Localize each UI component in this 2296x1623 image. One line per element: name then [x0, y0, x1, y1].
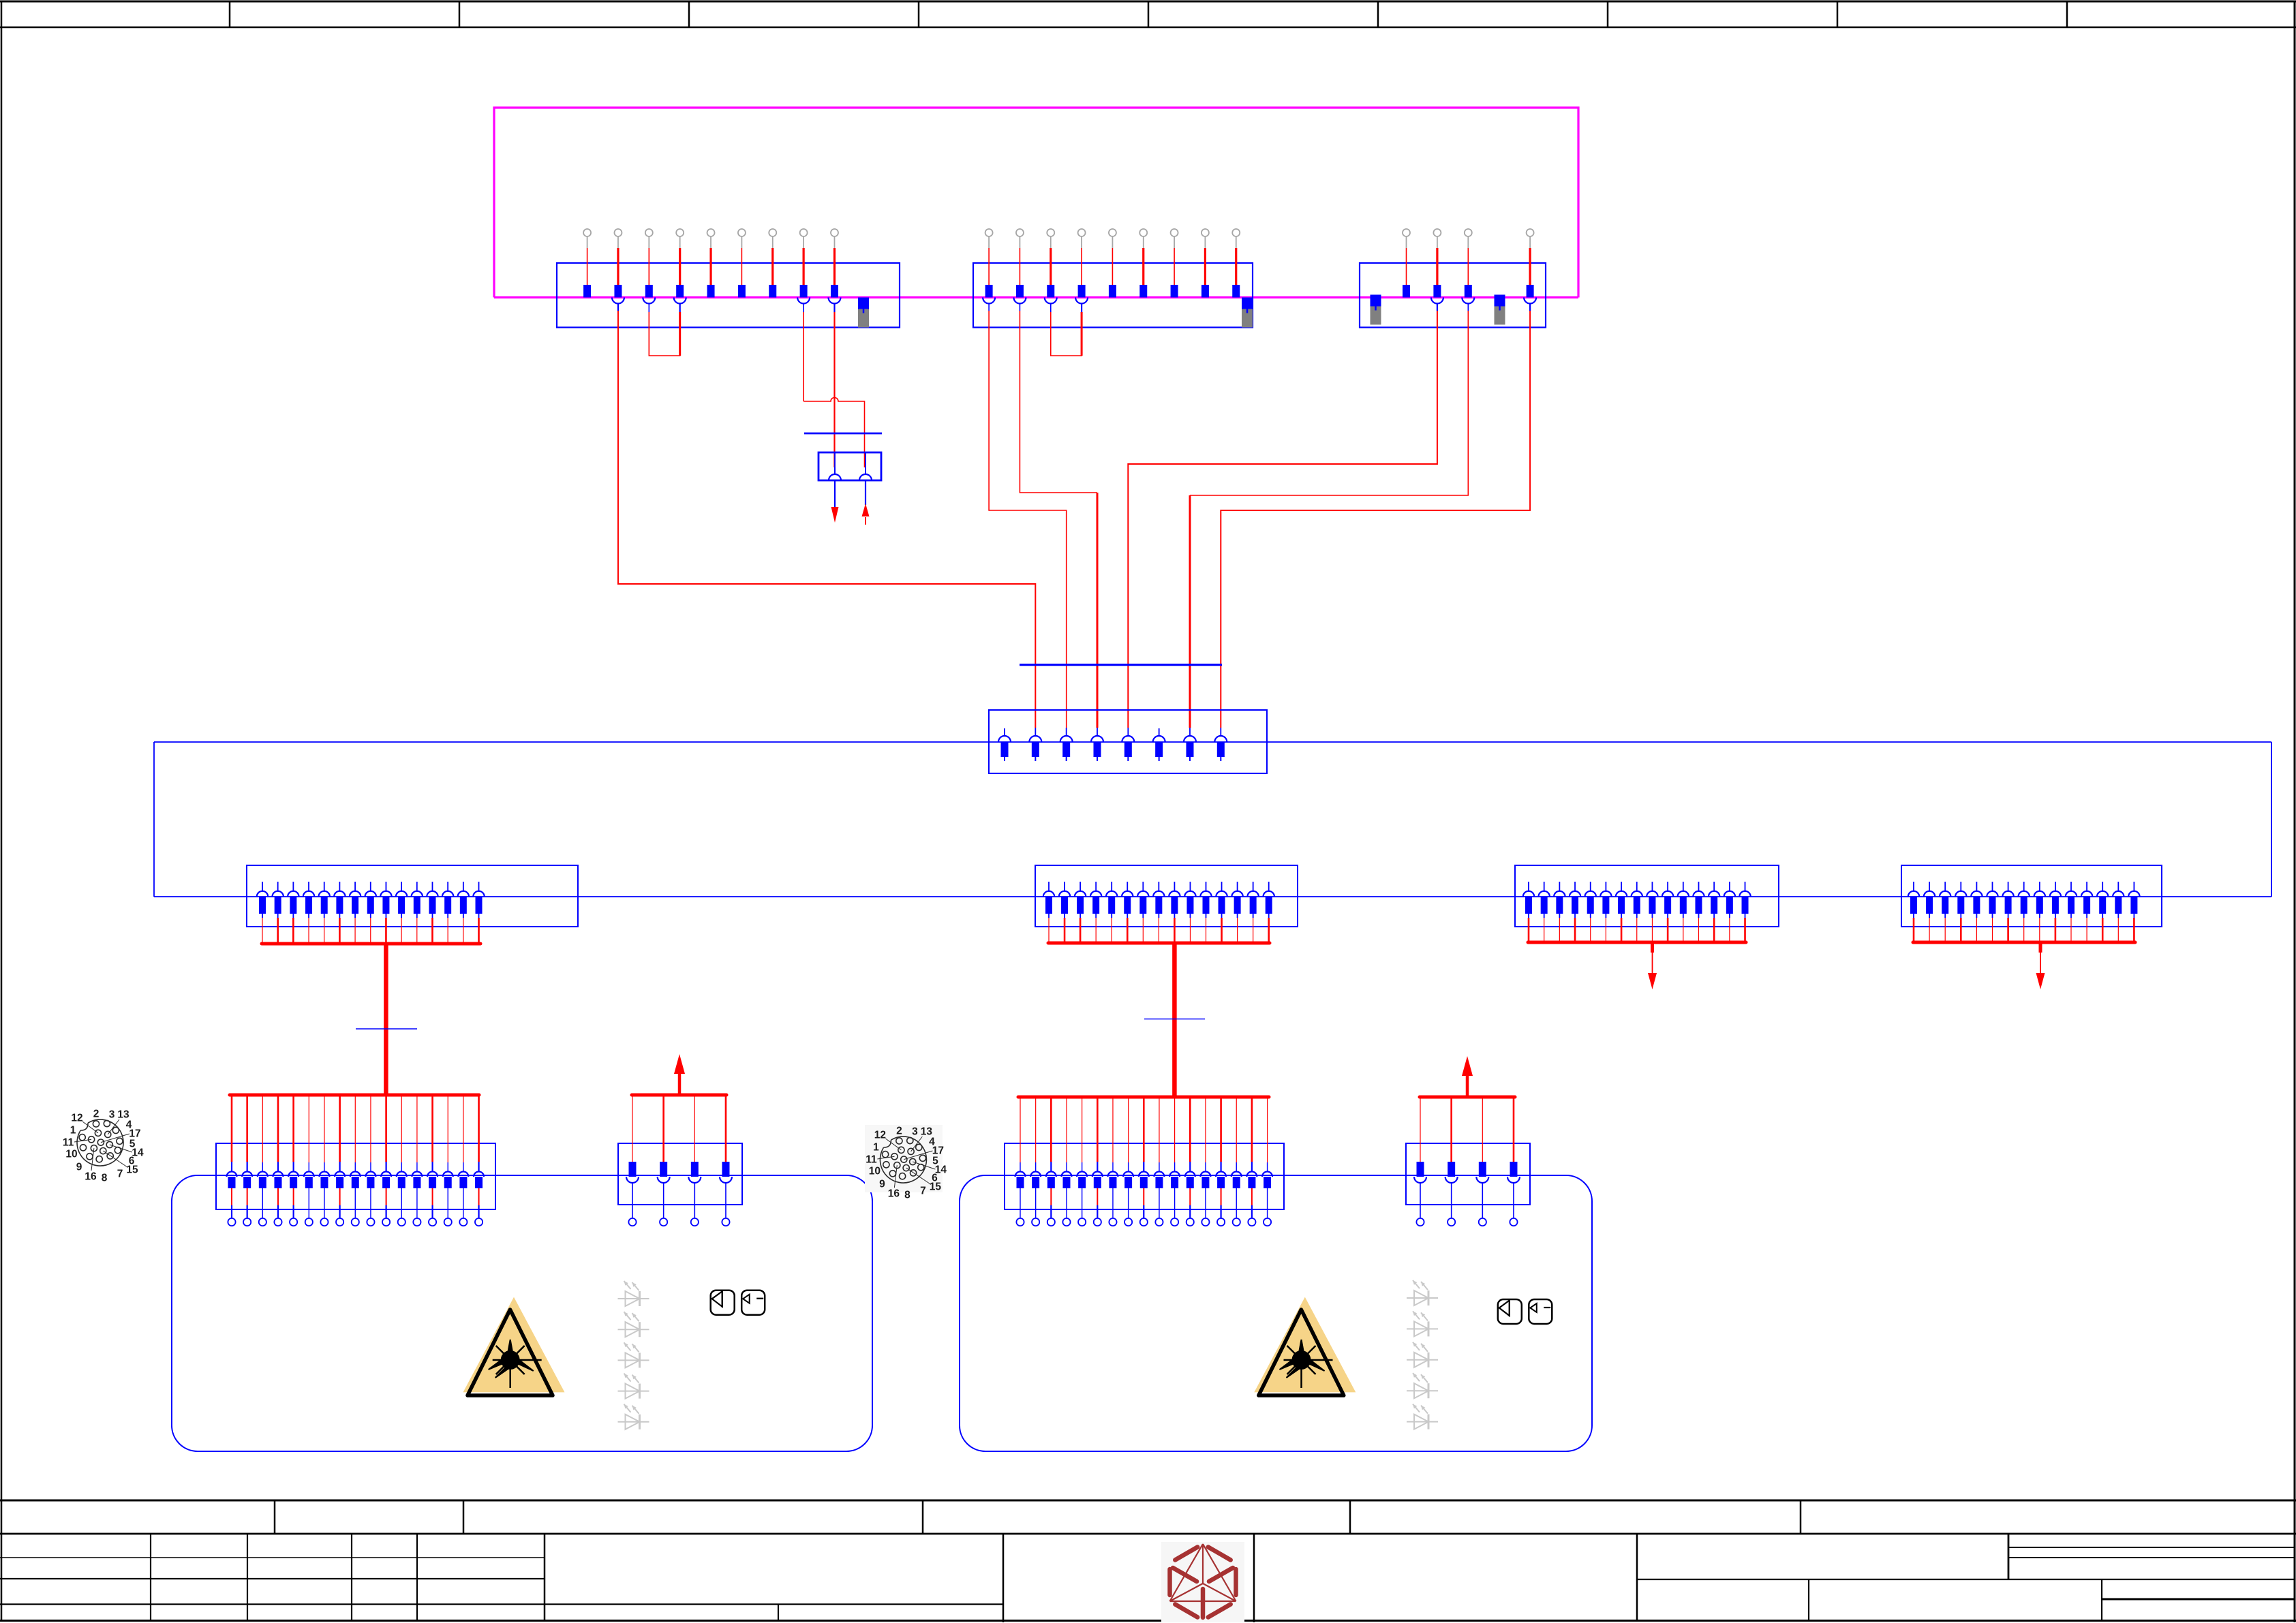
svg-text:2: 2 [896, 1126, 902, 1137]
svg-text:9: 9 [879, 1179, 885, 1190]
svg-text:15: 15 [126, 1164, 138, 1176]
svg-text:9: 9 [76, 1162, 82, 1173]
svg-text:3: 3 [109, 1109, 115, 1121]
svg-text:10: 10 [65, 1149, 77, 1160]
svg-text:7: 7 [920, 1186, 926, 1197]
svg-text:8: 8 [904, 1190, 910, 1201]
svg-text:11: 11 [63, 1137, 74, 1149]
svg-text:1: 1 [873, 1142, 879, 1154]
svg-text:15: 15 [930, 1181, 942, 1193]
svg-text:2: 2 [93, 1109, 100, 1120]
svg-text:16: 16 [888, 1188, 900, 1200]
svg-text:16: 16 [85, 1171, 97, 1183]
svg-text:3: 3 [912, 1126, 918, 1138]
svg-text:8: 8 [102, 1173, 108, 1184]
svg-text:12: 12 [71, 1113, 82, 1124]
svg-text:11: 11 [866, 1154, 877, 1166]
svg-text:1: 1 [70, 1125, 76, 1137]
svg-text:12: 12 [874, 1130, 886, 1141]
svg-text:10: 10 [869, 1166, 881, 1177]
svg-text:7: 7 [117, 1169, 123, 1180]
